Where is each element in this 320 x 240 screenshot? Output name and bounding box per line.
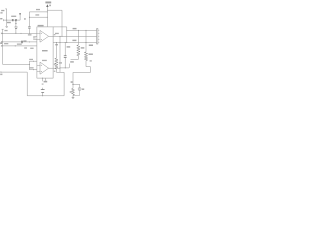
junction dot (47.3,11.9) (46, 10, 49, 13)
top branch vertical x=29.4 (28, 12, 30, 27)
junction dot (15.2,45.9) (15, 45, 16, 46)
inner stubs to op-amp A inputs (37, 33, 40, 39)
value text above y=11.9 wire (36, 9, 40, 10)
junction dot (60,68.2) (59, 66, 62, 69)
text above y=69.7 wire (29, 67, 33, 68)
wire horizontal y=59.4 (71, 58, 79, 60)
op-amp IC1 body rectangle (37, 27, 53, 78)
wire vertical x=73 (72, 73, 74, 89)
value text below wire (6, 22, 10, 23)
junction dot (2.6,41.9) (1, 41, 4, 44)
resistor ref text below y=42.6 wire (55, 44, 58, 45)
wire horizontal y=72.3 (56, 71, 64, 73)
ground bars bottom (72, 98, 75, 99)
text below y=45.9 wire a (24, 47, 27, 48)
pin stub y=39.4 (33, 38, 37, 40)
tick top of bus (2, 28, 4, 30)
wire from IC top edge to right y=26.9 (53, 26, 67, 28)
wire horizontal y=72.1 (1, 71, 27, 73)
resistor R value text (59, 62, 62, 63)
wire horizontal y=30.3 (67, 29, 97, 31)
connector hatch pins (98, 30, 99, 42)
pin end tick at left of wire (3, 19, 5, 21)
junction dot (33.4,69.7) (32, 68, 35, 71)
junction dot (29.4,33.3) (28, 32, 31, 35)
wire horizontal y=72.5 (73, 72, 91, 74)
op-amp B output wire y=68.2 (49, 67, 60, 69)
junction dot (42.7,78.1) (41, 77, 44, 80)
capacitor plates x=65.2 (64, 56, 67, 58)
value text right of capacitor (67, 46, 71, 47)
wire horizontal y=45.9 (1, 45, 37, 47)
net text above y=36.3 wire (55, 33, 59, 34)
junction dot (2.6,33.3) (1, 32, 4, 35)
left vertical bus x=2.6 (2, 29, 4, 64)
wire vertical x=29.4 linking stubs (28, 61, 30, 69)
wire vertical x=86 upper (85, 30, 87, 42)
LED label text (82, 89, 84, 90)
wire y=10.2 from supply to right (47, 9, 62, 11)
junction dot (86,42.6) (85, 41, 88, 44)
text above op-amp B (42, 60, 47, 61)
junction dot (66.8,42.6) (65, 41, 68, 44)
net text above y=42.6 wire (72, 40, 76, 41)
LED D1 bottom lead (73, 91, 80, 96)
LED D1 top lead (79, 84, 81, 87)
resistor R1 value text (81, 47, 85, 48)
net text below left end (0, 74, 2, 76)
power supply arrow +5V (46, 4, 48, 7)
wire vertical x=66.8 (66, 27, 68, 43)
net label text (70, 61, 74, 62)
value text above caps (11, 16, 16, 17)
small text near resistor R2 bottom (90, 60, 92, 61)
pin number text on lead (42, 83, 44, 84)
junction dot (2.6,45.9) (1, 45, 4, 48)
wire vertical x=64.1 to bottom (63, 72, 65, 96)
capacitor lead bottom (64, 57, 66, 68)
IC bottom pin stub x=42.7 (42, 78, 44, 81)
node label text top-left line2 (0, 12, 2, 13)
supply vertical wire x=47.3 (46, 7, 48, 27)
net label text left end (0, 18, 2, 19)
end tick y=41.9 (0, 41, 2, 43)
junction dot (33.4,61.2) (32, 60, 35, 63)
opamp B input polarity marks (41, 65, 42, 71)
wire horizontal y=20.1 (4, 19, 21, 21)
wire horizontal y=11.9 (29, 11, 47, 13)
wire to pin y=61.2 (29, 60, 37, 62)
wire to pin y=69.7 (29, 69, 37, 71)
text on left of x=73 wire (71, 81, 73, 83)
wire horizontal y=67.9 (60, 67, 69, 69)
wire vertical bus x=6.7 (5, 9, 7, 27)
net text below connector pin (89, 45, 93, 47)
op-amp B triangle (40, 62, 49, 74)
resistor R3 lead bottom (72, 95, 74, 97)
wire jog y=66.6 (86, 66, 90, 68)
LED D1 marks inside (79, 88, 80, 89)
ground small under x=6.7 (5, 26, 8, 27)
wire vertical x=62 (61, 10, 63, 36)
text above y=45.9 wire (17, 44, 22, 45)
resistor R2 value text (89, 54, 93, 55)
wire horizontal y=41.9 (1, 41, 37, 43)
net flag at top of x=20 stub (19, 13, 21, 15)
pin label text 2 (33, 37, 36, 38)
text right of bus top (4, 30, 7, 31)
junction dot (86,30.3) (85, 29, 88, 32)
value text right of cap (23, 40, 26, 42)
wire vertical x=90.4 (89, 67, 91, 73)
junction dot (60,42.6) (59, 41, 62, 44)
LED D1 circle (78, 88, 81, 91)
capacitor C plates bottom (41, 90, 45, 93)
junction dot (66.8,30.3) (65, 29, 68, 32)
junction dot (42.7,95.8) (41, 94, 44, 97)
capacitor C plates pair 1 on y=20.1 wire (11, 19, 14, 21)
text left of bus between wires (0, 42, 2, 44)
junction dot (21,33.3) (20, 32, 23, 35)
capacitor chain lead x=65.2 (64, 43, 66, 56)
resistor R2 lead bottom (85, 61, 87, 67)
wire horizontal y=64.4 (3, 63, 30, 65)
capacitor C plates pair 2 on y=20.1 wire (14, 19, 17, 21)
node label text top-left line1 (1, 10, 4, 11)
node junction at (6.7,20.1) (6, 20, 7, 21)
net tick x=69.4 (68, 64, 70, 68)
capacitor lead to bottom wire (42, 92, 44, 95)
text right of bus between wires (4, 43, 8, 44)
junction dot (47.3,17.2) (46, 16, 49, 19)
wire horizontal y=33.3 (1, 32, 37, 34)
supply label text (45, 2, 51, 4)
wire branch y=84.3 to LED (73, 83, 80, 85)
wire stub x=20 (19, 15, 21, 21)
junction dot (73,84.3) (72, 83, 75, 86)
capacitor plates on y=41.9 wire (22, 41, 23, 44)
opamp A input polarity marks (41, 33, 42, 39)
IC reference text above body (38, 25, 44, 26)
wire bottom horizontal y=95.8 (27, 95, 64, 97)
wire horizontal y=17.2 (29, 16, 47, 18)
text below y=45.9 wire b (30, 48, 33, 49)
pin number text right of op-amp A output (54, 34, 56, 35)
op-amp A triangle (40, 30, 49, 42)
electrolytic capacitor lead bottom (15, 29, 17, 34)
pin text near bottom stub (44, 81, 48, 83)
junction dot (65.2,67.9) (64, 66, 67, 69)
junction dot (15.9,33.3) (15, 33, 16, 34)
electrolytic capacitor plates (15, 27, 18, 29)
junction dot (29.4,17.2) (28, 16, 31, 19)
text small left of x=29 stub (24, 18, 26, 20)
capacitor plates at x=29.4 (28, 27, 31, 29)
value text above y=17.2 wire (35, 14, 39, 15)
resistor R1 lead bottom (77, 55, 79, 59)
junction dot (65.2,42.6) (64, 41, 67, 44)
op-amp A output wire y=36.3 (49, 35, 97, 37)
resistor lead bottom (55, 69, 57, 72)
resistor R1 zigzag x=78.4 (77, 45, 80, 56)
resistor R3 value text (70, 91, 72, 93)
junction dot (60,36.3) (59, 35, 62, 38)
junction dot (56.4,42.6) (55, 41, 58, 44)
end tick y=33.3 (0, 33, 2, 35)
pin stub y=36.3 (33, 35, 37, 37)
wire horizontal y=42.6 (53, 42, 97, 44)
junction dot (62,36.3) (61, 35, 64, 38)
connector J1 body bar (97, 29, 98, 44)
pin label text left of stubs (28, 34, 32, 35)
resistor R3 zigzag x=73 (72, 88, 75, 95)
text above y=61.2 wire (29, 59, 33, 60)
wire vertical x=60 (59, 36, 61, 72)
net text above y=30.3 wire (73, 28, 77, 29)
resistor R1 lead from y=30.3 (77, 30, 79, 45)
plus mark of electrolytic (15, 23, 16, 24)
resistor R zigzag x=56.4 (55, 58, 58, 69)
capacitor lead to wire y=33.3 (28, 29, 30, 34)
junction dot (29.4,64.4) (29, 64, 30, 65)
IC bottom pin stub x=45.6 (45, 78, 47, 81)
end tick y=45.9 (0, 45, 2, 47)
pin number texts right of op-amp B (54, 64, 56, 65)
resistor R2 zigzag x=86 (84, 52, 87, 61)
inner stubs to op-amp B inputs (37, 65, 40, 71)
wire vertical x=27.2 down left side (26, 72, 28, 96)
resistor R2 lead from y=42.6 (85, 43, 87, 52)
IC internal part text (42, 50, 48, 51)
resistor R x=56.4 lead top (55, 43, 57, 59)
junction dot (78.4,30.3) (77, 29, 80, 32)
junction dot (29.6,41.9) (28, 40, 31, 43)
electrolytic capacitor C at x=15.9 lead top (15, 20, 17, 27)
capacitor C lead at x=42.7 (42, 88, 44, 90)
pin end tick left of y=72.1 wire (0, 71, 2, 73)
